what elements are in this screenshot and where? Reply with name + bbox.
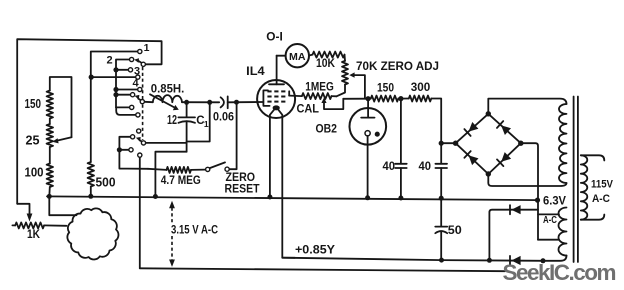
svg-text:IL4: IL4	[246, 64, 265, 78]
svg-text:1K: 1K	[27, 227, 40, 241]
svg-text:3: 3	[134, 66, 140, 78]
svg-text:OB2: OB2	[316, 124, 338, 136]
svg-text:40: 40	[419, 159, 432, 173]
svg-text:3.15 V A-C: 3.15 V A-C	[171, 223, 218, 237]
svg-text:4.7 MEG: 4.7 MEG	[161, 173, 201, 187]
svg-text:SeekIC.com: SeekIC.com	[503, 260, 617, 285]
svg-text:150: 150	[25, 97, 42, 111]
svg-text:O-I: O-I	[266, 32, 283, 44]
svg-text:+0.85Y: +0.85Y	[295, 243, 335, 257]
svg-text:2: 2	[107, 55, 113, 67]
svg-text:100: 100	[25, 166, 44, 180]
svg-text:CAL: CAL	[297, 102, 320, 116]
svg-text:10K: 10K	[316, 58, 336, 70]
svg-text:1: 1	[144, 42, 150, 54]
svg-text:50: 50	[448, 223, 462, 237]
svg-text:500: 500	[96, 176, 116, 190]
svg-text:150: 150	[377, 83, 394, 95]
svg-text:4: 4	[133, 78, 140, 90]
svg-text:0.06: 0.06	[213, 110, 234, 124]
svg-text:1MEG: 1MEG	[305, 82, 334, 94]
svg-text:70K ZERO ADJ: 70K ZERO ADJ	[356, 61, 439, 73]
svg-text:MA: MA	[289, 52, 306, 63]
svg-text:40: 40	[383, 159, 396, 173]
svg-text:RESET: RESET	[225, 182, 261, 196]
svg-text:115V: 115V	[591, 179, 614, 191]
svg-text:6.3V: 6.3V	[543, 196, 566, 208]
svg-text:25: 25	[26, 134, 40, 148]
svg-text:A-C: A-C	[592, 193, 610, 205]
svg-text:A-C: A-C	[543, 214, 557, 226]
svg-text:300: 300	[411, 82, 431, 94]
svg-text:12: 12	[167, 113, 177, 127]
svg-text:0.85H.: 0.85H.	[151, 82, 185, 96]
svg-text:1: 1	[204, 119, 209, 129]
